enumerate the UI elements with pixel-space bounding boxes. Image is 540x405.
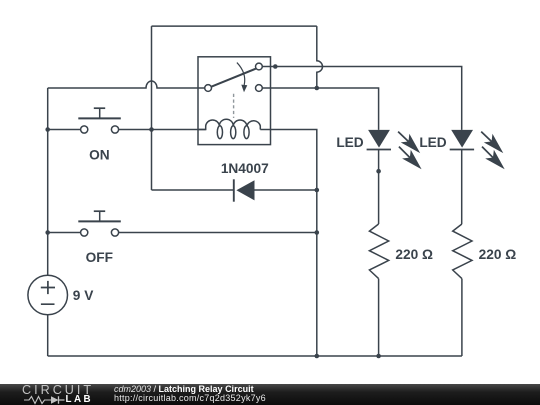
svg-text:LED: LED — [419, 135, 446, 150]
svg-text:9 V: 9 V — [73, 288, 94, 303]
wire: ON row right to coil — [119, 129, 206, 131]
relay common terminal — [205, 85, 212, 92]
relay dashed link — [233, 94, 235, 118]
LED D3 emission arrows — [481, 132, 502, 168]
node: relay top contact — [273, 64, 278, 69]
relay switch lever — [211, 69, 256, 87]
node: diode/coil-return — [315, 188, 320, 193]
wire: R1 to bottom rail — [378, 279, 380, 356]
wire: relay top contact to LED2 corner — [262, 67, 462, 130]
wire: coil right to bottom rail — [260, 130, 317, 357]
LED D2 emission arrows — [398, 132, 419, 168]
wire: vertical from top loop left down to diode row — [151, 26, 153, 190]
node: OFF/coil-return — [315, 230, 320, 235]
node: coil-return/rail — [315, 354, 320, 359]
relay NC terminal (bottom) — [256, 85, 263, 92]
wire: bottom rail — [48, 355, 462, 357]
battery V1 — [28, 275, 68, 315]
wire: left rail — [47, 88, 49, 356]
LED D3 — [451, 130, 473, 148]
svg-text:ON: ON — [89, 148, 110, 163]
pushbutton SW2 (OFF) — [78, 211, 121, 236]
relay NO terminal (top) — [256, 63, 263, 70]
node: rail/OFF — [45, 230, 50, 235]
wire: R2 to bottom rail — [461, 279, 463, 356]
CircuitLab logo — [22, 385, 98, 405]
wire: LED2 cathode to resistor R2 — [461, 150, 463, 225]
wire: vertical top loop right with hop over LED2 feed — [317, 26, 323, 88]
pushbutton SW1 (ON) — [78, 108, 121, 133]
relay K1 box — [198, 57, 271, 145]
resistor R2 220 — [453, 224, 472, 279]
svg-text:1N4007: 1N4007 — [221, 161, 269, 176]
relay coil L1 — [198, 119, 260, 129]
node: ON/coil/top-loop — [149, 127, 154, 132]
wire: diode row — [152, 189, 317, 191]
svg-text:LED: LED — [336, 135, 363, 150]
wire: left rail to relay common with hop — [48, 81, 205, 88]
wire: OFF row right — [119, 232, 317, 234]
wire: OFF row left — [48, 232, 81, 234]
svg-text:220 Ω: 220 Ω — [479, 247, 517, 262]
resistor R1 220 — [369, 224, 388, 279]
node: R1/rail — [376, 354, 381, 359]
diode D1 1N4007 — [233, 179, 235, 201]
wire: relay bottom contact to LED1 corner — [262, 88, 378, 130]
svg-text:220 Ω: 220 Ω — [395, 247, 433, 262]
relay actuation arrow — [237, 63, 245, 85]
wire: LED1 cathode to resistor R1 — [378, 150, 380, 225]
node: rail/ON — [45, 127, 50, 132]
wire: top loop horizontal — [152, 25, 317, 27]
footer bar — [0, 384, 540, 405]
svg-text:OFF: OFF — [86, 250, 113, 265]
wire: ON row left — [48, 129, 81, 131]
node: NC contact/top-loop — [315, 86, 320, 91]
LED D2 — [368, 130, 390, 148]
node: LED1/R1 — [376, 169, 381, 174]
